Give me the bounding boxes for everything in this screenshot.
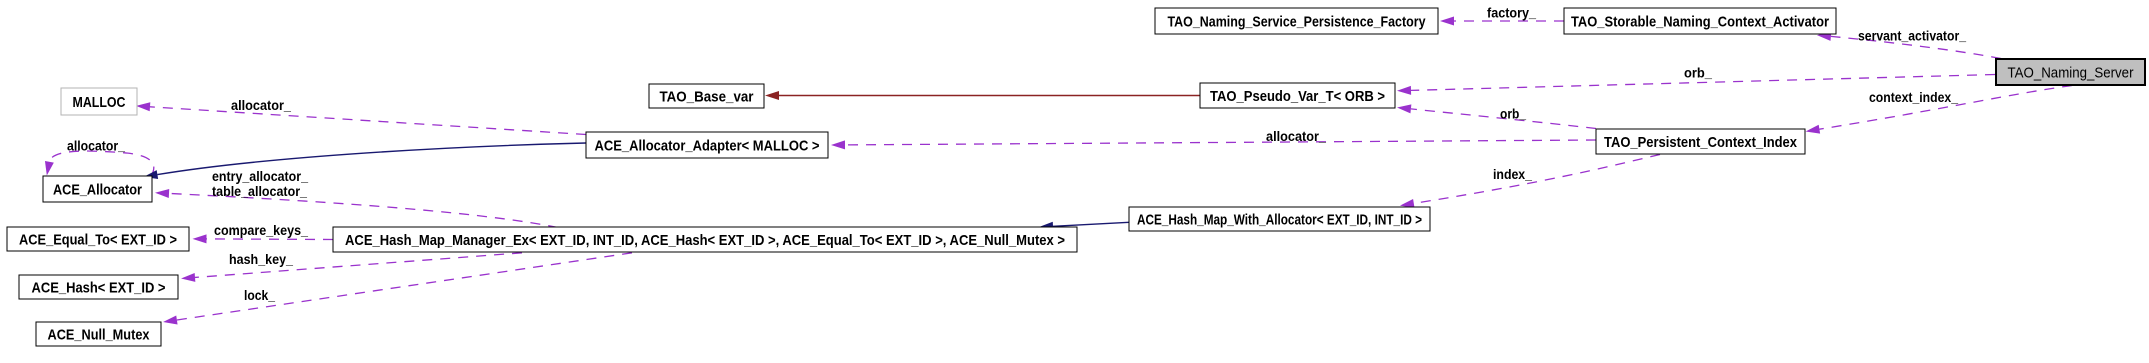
svg-text:index_: index_ [1493, 166, 1532, 182]
wire hash_key_ edge [195, 253, 522, 278]
wire entry_allocator_ table_allocator_ edge [169, 193, 558, 227]
svg-text:allocator_: allocator_ [231, 97, 291, 113]
node ACE_Hash< EXT_ID > [19, 275, 178, 299]
wire orb_ edge upper [1411, 75, 1995, 91]
svg-text:ACE_Null_Mutex: ACE_Null_Mutex [48, 327, 151, 344]
svg-text:context_index_: context_index_ [1869, 89, 1958, 105]
svg-text:entry_allocator_: entry_allocator_ [212, 168, 308, 184]
svg-text:factory_: factory_ [1487, 5, 1536, 21]
svg-text:allocator_: allocator_ [1266, 128, 1326, 144]
node MALLOC (template param) [61, 88, 137, 115]
wire inheritance TAO_Pseudo_Var_T to TAO_Base_var [779, 95, 1200, 97]
wire inheritance ACE_Allocator_Adapter to ACE_Allocator [157, 143, 586, 175]
node ACE_Hash_Map_With_Allocator< EXT_ID, INT_ID > [1129, 207, 1430, 231]
wire lock_ edge [177, 253, 632, 320]
node TAO_Pseudo_Var_T< ORB > [1200, 83, 1395, 108]
svg-text:ACE_Hash< EXT_ID >: ACE_Hash< EXT_ID > [32, 280, 166, 297]
node TAO_Persistent_Context_Index [1596, 129, 1805, 154]
wire servant_activator_ edge [1831, 36, 2001, 58]
node ACE_Allocator_Adapter< MALLOC > [586, 132, 828, 158]
wire allocator_ self loop on ACE_Allocator [49, 151, 153, 176]
svg-text:ACE_Equal_To< EXT_ID >: ACE_Equal_To< EXT_ID > [19, 232, 177, 249]
svg-text:table_allocator_: table_allocator_ [212, 183, 307, 199]
wire allocator_ edge to MALLOC [150, 107, 586, 135]
svg-text:lock_: lock_ [244, 287, 275, 303]
wire context_index_ edge [1819, 86, 2072, 130]
svg-text:TAO_Pseudo_Var_T< ORB >: TAO_Pseudo_Var_T< ORB > [1210, 88, 1385, 105]
node ACE_Hash_Map_Manager_Ex [333, 227, 1077, 252]
wire factory_ edge [1454, 20, 1564, 22]
svg-text:MALLOC: MALLOC [73, 94, 126, 111]
svg-text:TAO_Naming_Server: TAO_Naming_Server [2008, 65, 2134, 82]
node ACE_Equal_To< EXT_ID > [7, 227, 189, 251]
svg-text:orb_: orb_ [1684, 65, 1712, 81]
wire allocator_ edge to adapter [845, 140, 1596, 145]
svg-text:TAO_Naming_Service_Persistence: TAO_Naming_Service_Persistence_Factory [1168, 14, 1427, 31]
node TAO_Base_var [649, 84, 764, 108]
node TAO_Naming_Server (current) [1996, 59, 2145, 85]
node ACE_Allocator [43, 176, 152, 202]
node TAO_Naming_Service_Persistence_Factory [1155, 8, 1438, 34]
svg-text:ACE_Allocator: ACE_Allocator [53, 182, 142, 199]
svg-text:ACE_Hash_Map_Manager_Ex< EXT_I: ACE_Hash_Map_Manager_Ex< EXT_ID, INT_ID,… [345, 232, 1065, 249]
svg-text:ACE_Allocator_Adapter< MALLOC: ACE_Allocator_Adapter< MALLOC > [595, 138, 820, 155]
svg-text:allocator_: allocator_ [67, 138, 125, 154]
node TAO_Storable_Naming_Context_Activator [1564, 8, 1836, 34]
wire orb_ edge lower [1411, 109, 1596, 129]
svg-text:hash_key_: hash_key_ [229, 251, 293, 267]
svg-text:TAO_Storable_Naming_Context_Ac: TAO_Storable_Naming_Context_Activator [1571, 14, 1829, 31]
svg-text:servant_activator_: servant_activator_ [1858, 28, 1966, 44]
wire inheritance ACE_Hash_Map_With_Allocator to ACE_Hash_Map_Manager_Ex [1053, 222, 1129, 226]
svg-text:TAO_Persistent_Context_Index: TAO_Persistent_Context_Index [1604, 134, 1798, 151]
wire compare_keys_ edge [207, 238, 334, 241]
svg-text:compare_keys_: compare_keys_ [214, 222, 308, 238]
svg-text:orb_: orb_ [1500, 106, 1526, 122]
node ACE_Null_Mutex [36, 322, 161, 346]
svg-text:TAO_Base_var: TAO_Base_var [660, 89, 754, 106]
wire index_ edge [1414, 155, 1660, 204]
svg-text:ACE_Hash_Map_With_Allocator< E: ACE_Hash_Map_With_Allocator< EXT_ID, INT… [1137, 212, 1422, 229]
